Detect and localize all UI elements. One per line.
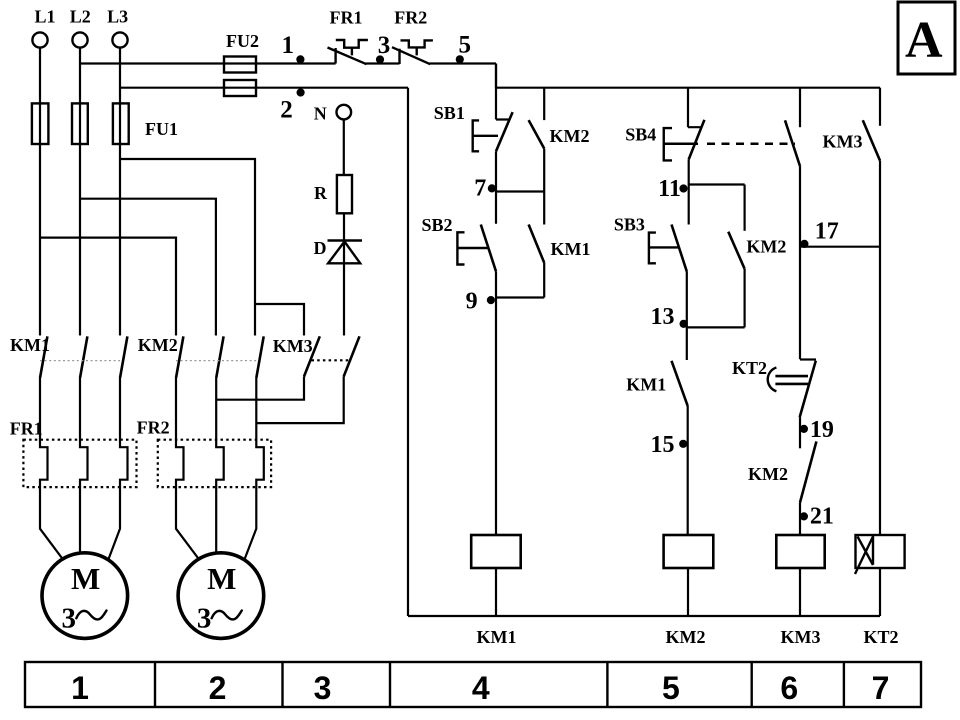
node 21	[800, 512, 808, 520]
contact KM3 aux	[863, 88, 880, 535]
KM3 braking return wires	[216, 377, 344, 424]
diode D	[328, 241, 363, 264]
node 11	[689, 183, 745, 185]
svg-text:7: 7	[872, 670, 890, 706]
terminal L2	[72, 32, 87, 47]
fuse FU1	[32, 103, 129, 144]
svg-text:M: M	[71, 561, 100, 596]
svg-text:A: A	[905, 12, 943, 69]
svg-text:3: 3	[314, 670, 332, 706]
svg-text:N: N	[314, 103, 327, 123]
contact KM2 aux2 (parallel SB3)	[728, 185, 744, 328]
svg-text:KM1: KM1	[626, 375, 666, 395]
fuse FU2	[224, 57, 256, 97]
svg-text:KM1: KM1	[477, 627, 517, 647]
pushbutton SB2 (NO)	[457, 225, 496, 536]
svg-text:L1: L1	[34, 7, 55, 27]
svg-text:SB3: SB3	[614, 215, 645, 235]
node 1	[296, 55, 304, 63]
terminal L3	[112, 32, 127, 47]
svg-text:KM1: KM1	[10, 335, 50, 355]
svg-text:3: 3	[62, 603, 77, 635]
motor M1	[42, 553, 128, 639]
svg-text:M: M	[207, 561, 236, 596]
svg-text:9: 9	[466, 289, 478, 315]
wire C: L1 branch to KM2 pole1	[40, 238, 176, 336]
svg-text:15: 15	[651, 432, 675, 458]
svg-text:FR1: FR1	[10, 419, 43, 439]
svg-text:21: 21	[810, 503, 834, 529]
contact KT2 delayed (NC)	[768, 360, 816, 449]
svg-text:4: 4	[472, 670, 490, 706]
node 2	[297, 88, 305, 96]
control bottom bus	[408, 615, 880, 617]
thermal relay contact FR1	[328, 40, 368, 64]
svg-text:17: 17	[815, 218, 839, 244]
svg-text:1: 1	[71, 670, 89, 706]
contact KM1 aux (parallel SB2)	[529, 192, 545, 298]
svg-text:KM2: KM2	[746, 237, 786, 257]
svg-text:FR2: FR2	[394, 8, 427, 28]
node 19	[800, 425, 808, 433]
svg-text:KM2: KM2	[748, 464, 788, 484]
svg-text:KM3: KM3	[823, 132, 863, 152]
svg-text:KM2: KM2	[138, 335, 178, 355]
svg-text:L3: L3	[107, 7, 128, 27]
contact KM2 aux (parallel SB1)	[529, 88, 545, 192]
contact KM1 interlock	[672, 361, 688, 535]
svg-text:6: 6	[780, 670, 798, 706]
svg-text:L2: L2	[70, 7, 91, 27]
wire line 2 (L3 to control, y=87.7)	[120, 87, 408, 89]
thermal relay contact FR2	[392, 40, 433, 64]
svg-text:5: 5	[662, 670, 680, 706]
motor M1 leads (with FR1 heater elements)	[40, 378, 62, 558]
svg-text:19: 19	[810, 417, 834, 443]
pushbutton SB4 (right pole)	[785, 88, 800, 360]
svg-text:R: R	[314, 183, 328, 203]
KM1 mechanical link	[40, 360, 120, 362]
pushbutton SB4 (NC, left pole)	[664, 88, 705, 225]
svg-text:7: 7	[474, 176, 486, 202]
svg-text:SB4: SB4	[625, 125, 656, 145]
svg-text:SB2: SB2	[422, 215, 453, 235]
coil KM1	[471, 535, 521, 568]
svg-text:KM2: KM2	[550, 126, 590, 146]
svg-text:11: 11	[658, 176, 681, 202]
svg-text:FU1: FU1	[145, 119, 178, 139]
contactor KM2 main contacts	[176, 336, 264, 378]
wire B: L2 branch to KM2 pole2	[80, 199, 216, 336]
svg-text:5: 5	[458, 31, 471, 58]
wire L1 vertical	[39, 48, 41, 336]
svg-text:KM2: KM2	[666, 627, 706, 647]
svg-text:KM1: KM1	[551, 239, 591, 259]
wire A: L3 branch to KM2 pole3 and KM3 pole1	[120, 159, 304, 336]
wire L3 vertical	[119, 48, 121, 336]
node 5	[456, 55, 464, 63]
node 9	[496, 296, 544, 298]
terminal L1	[32, 32, 47, 47]
svg-text:KM3: KM3	[781, 627, 821, 647]
svg-text:FR1: FR1	[330, 8, 363, 28]
SB4 dashed mechanical link	[707, 143, 795, 145]
svg-text:SB1: SB1	[434, 103, 465, 123]
svg-text:D: D	[314, 238, 327, 258]
svg-text:3: 3	[378, 32, 391, 59]
wire line 1 (L2 to control, y=63.5)	[80, 64, 496, 88]
svg-text:2: 2	[280, 97, 293, 124]
svg-text:3: 3	[197, 603, 212, 635]
svg-text:KT2: KT2	[863, 627, 898, 647]
coil KM3	[776, 535, 824, 568]
KM2 mechanical link	[176, 360, 256, 362]
svg-text:13: 13	[651, 304, 675, 330]
coil KT2 (time relay)	[855, 535, 905, 574]
thermal overload FR2 heaters	[158, 440, 271, 487]
contactor KM3 main contacts	[304, 336, 360, 376]
wire L2 vertical	[79, 48, 81, 336]
control left vertical	[407, 88, 409, 616]
wire N to R	[343, 120, 345, 175]
node 17	[800, 246, 880, 248]
wire R to D (continues through diode)	[343, 213, 345, 335]
pushbutton SB1 (NC)	[473, 64, 513, 224]
svg-text:FR2: FR2	[137, 418, 170, 438]
table frame	[25, 662, 921, 707]
node 7	[496, 190, 544, 192]
motor M2	[178, 553, 264, 639]
contactor KM1 main contacts	[40, 336, 127, 378]
svg-text:KT2: KT2	[732, 358, 767, 378]
svg-text:KM3: KM3	[273, 336, 313, 356]
node 15	[679, 440, 687, 448]
resistor R	[337, 175, 352, 213]
motor M2 leads (with FR2 heater elements)	[176, 378, 198, 558]
KM3 mechanical link	[312, 359, 352, 361]
drawing zone label A box	[898, 2, 955, 74]
coil KM2	[664, 535, 714, 568]
node 3	[376, 55, 384, 63]
contact KM2 aux3	[800, 441, 816, 535]
pushbutton SB3 (NO)	[649, 225, 687, 361]
thermal overload FR1 heaters	[23, 440, 136, 487]
terminal N	[337, 105, 352, 120]
svg-text:1: 1	[282, 32, 295, 59]
control top bus	[496, 87, 880, 89]
svg-text:FU2: FU2	[226, 31, 259, 51]
node 13	[687, 326, 745, 328]
svg-text:2: 2	[209, 670, 227, 706]
table numbers	[71, 670, 889, 706]
